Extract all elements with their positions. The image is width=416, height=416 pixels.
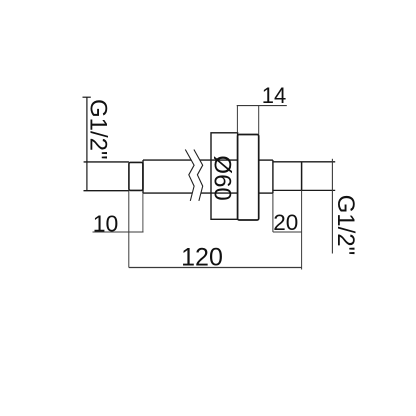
svg-text:10: 10 [93, 210, 119, 236]
svg-text:G1/2": G1/2" [85, 99, 112, 160]
svg-text:20: 20 [273, 210, 298, 235]
svg-text:G1/2": G1/2" [332, 195, 359, 256]
svg-text:Ø60: Ø60 [209, 155, 236, 200]
svg-text:120: 120 [181, 243, 223, 271]
svg-text:14: 14 [262, 83, 286, 108]
